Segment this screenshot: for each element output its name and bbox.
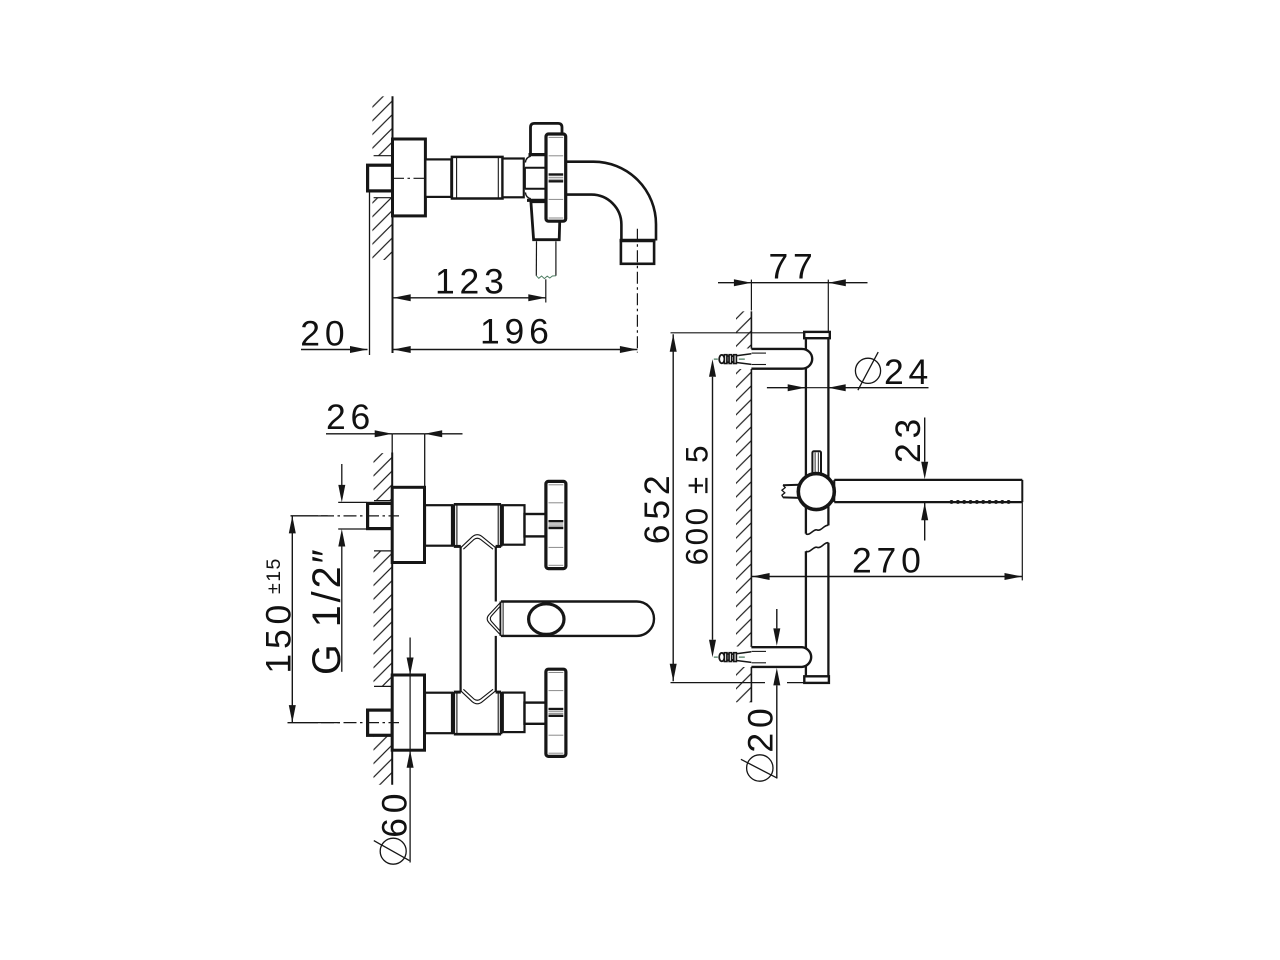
dimension 123 (393, 262, 546, 302)
svg-text:26: 26 (326, 397, 375, 437)
bar break gap with wavy lines (806, 525, 829, 551)
diverter housing trapezoid (side view) (531, 202, 560, 240)
upper wall support tube with dome end (751, 349, 812, 369)
svg-text:60: 60 (375, 789, 415, 838)
upper small cylinder (front view) (503, 505, 525, 545)
lower inlet nipple (front view) (368, 710, 393, 735)
wall face line (side view) (392, 96, 394, 353)
lever left chevron (thin double line) (487, 603, 500, 635)
dimension 196 (393, 311, 638, 353)
lower valve body (front view) (454, 692, 501, 734)
body cylinder 2 (side view) (452, 157, 503, 199)
diverter ring on lever (529, 604, 564, 635)
upper valve body (front view) (454, 504, 501, 546)
dimension 150 +-15 (rotated) (258, 516, 340, 723)
svg-text:270: 270 (852, 541, 926, 581)
wall flange escutcheon (side view) (393, 139, 426, 216)
diverter pull rod (side view) (536, 241, 556, 278)
upper valve neck (front view) (425, 505, 452, 546)
upper cross handle plate (front view) (546, 481, 566, 568)
thread label G 1/2 inch with leader (rotated) (305, 464, 367, 675)
spout centerline / 196 extension (636, 229, 638, 353)
lower nipple centerline (288, 722, 400, 724)
slider lock knob (812, 451, 821, 474)
dimension 26 (326, 397, 463, 438)
lower wall support tube with dome end (751, 647, 811, 667)
svg-text:652: 652 (637, 471, 677, 545)
slide bar top cap (804, 332, 830, 338)
svg-text:20: 20 (740, 704, 780, 753)
svg-text:20: 20 (300, 313, 349, 353)
dimension diameter 24 with symbol (767, 352, 933, 392)
upper wall screw anchor (714, 354, 752, 365)
bridge arch bottom chevron (thin double line) (461, 689, 496, 704)
svg-text:±15: ±15 (263, 557, 285, 594)
svg-text:G 1/2″: G 1/2″ (305, 546, 349, 675)
svg-text:123: 123 (435, 262, 509, 302)
bridge tube vertical lines (461, 546, 496, 692)
body cylinder 1 (side view) (425, 159, 451, 197)
dimension 20 (300, 313, 367, 353)
dimension 600 +-5 (rotated) (678, 359, 716, 657)
wall hatching (side view) (372, 96, 392, 260)
dimension diameter 60 (rotated) (374, 638, 415, 865)
spout lever pill (front view) (500, 602, 654, 636)
slide bar bottom cap (804, 676, 829, 683)
svg-text:150: 150 (258, 600, 298, 674)
valve hub and stem (side view) (525, 155, 547, 201)
upper handle stem (front view) (525, 514, 547, 536)
hand shower handle (834, 480, 1022, 502)
wall face line (front view) (391, 453, 393, 785)
body cylinder 3 (side view) (503, 159, 524, 198)
lower small cylinder (front view) (503, 693, 525, 733)
centerline through flange (side view) (393, 177, 428, 179)
wall hatching (front view) (374, 453, 393, 785)
wall hatching (right view) (736, 311, 751, 702)
dimension 270 (751, 502, 1022, 580)
svg-text:77: 77 (769, 247, 818, 287)
lower handle stem (front view) (525, 703, 547, 724)
lower wall screw anchor (714, 652, 752, 663)
lower valve neck (front view) (425, 693, 452, 734)
upper nipple centerline (291, 515, 400, 517)
slide bar tube (806, 338, 829, 676)
lower wall flange (front view) (392, 675, 424, 750)
svg-text:196: 196 (480, 311, 554, 351)
hand shower spray head cone with break (782, 485, 800, 498)
spout end collar (side view) (620, 241, 656, 264)
dimension 652 (rotated) (637, 333, 804, 683)
upper wall flange (front view) (392, 487, 424, 562)
upper inlet nipple (front view) (368, 503, 393, 528)
lower cross handle plate (front view) (546, 669, 566, 756)
extension lines of dimension 26 (392, 434, 425, 487)
svg-text:23: 23 (888, 414, 928, 463)
dimension diameter 20 with symbol (rotated) (740, 609, 780, 781)
cross handle edge plate (side view) (546, 134, 566, 221)
dimension 77 (718, 247, 868, 332)
svg-text:600 ± 5: 600 ± 5 (678, 443, 714, 565)
svg-text:24: 24 (884, 352, 933, 392)
extension line from inlet nipple (20 mm) (369, 191, 371, 355)
handle top knob (side view) (531, 123, 563, 154)
wall face line (right view) (750, 311, 752, 702)
rod tip extension line to 123 dim (545, 279, 547, 302)
hand shower holder ring (798, 474, 834, 510)
spray nozzle dots on handle (950, 500, 1011, 504)
inlet nipple (side view) (368, 165, 393, 191)
dimension 23 (rotated) (888, 414, 928, 541)
spout tube (side view) (566, 162, 656, 241)
bridge arch top chevron (thin double line) (461, 535, 496, 550)
